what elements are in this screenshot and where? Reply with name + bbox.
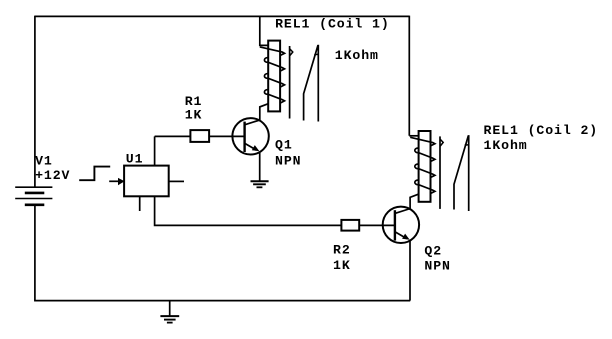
svg-text:V1: V1 bbox=[35, 154, 53, 169]
relay contact 2a armature bbox=[440, 136, 443, 209]
wire coil1 exit to Q1 collector bbox=[260, 104, 269, 121]
U1 right pin stub bbox=[169, 180, 184, 182]
U1 bottom pin stub bbox=[139, 196, 141, 211]
svg-text:NPN: NPN bbox=[275, 153, 301, 168]
svg-text:Q2: Q2 bbox=[424, 243, 442, 258]
ground (Q1 emitter) bbox=[251, 181, 269, 187]
coil1 winding turn 3 bbox=[264, 74, 284, 88]
coil1 winding turn 2 bbox=[264, 58, 284, 72]
relay contact 2b blade bbox=[454, 135, 469, 211]
relay coil REL1 (Coil 2) body bbox=[419, 131, 431, 202]
relay coil REL1 (Coil 1) body bbox=[268, 41, 280, 112]
wire top rail bbox=[35, 15, 409, 17]
svg-text:Q1: Q1 bbox=[275, 137, 293, 152]
wire coil1 feed from top rail bbox=[260, 16, 268, 45]
svg-text:R2: R2 bbox=[333, 242, 351, 257]
wire R1 to Q1 base bbox=[209, 135, 245, 137]
wire U1 lower pin down and across to R2 bbox=[155, 196, 342, 225]
wire U1 top pin up to R1 row bbox=[154, 136, 156, 165]
wire left rail upper (V1 plus lead) bbox=[34, 16, 36, 188]
svg-text:+12V: +12V bbox=[35, 168, 70, 183]
coil1 winding turn 1 bbox=[260, 47, 285, 56]
coil2 winding turn 1 bbox=[410, 137, 435, 146]
wire right rail bbox=[408, 16, 410, 136]
svg-text:REL1 (Coil 1): REL1 (Coil 1) bbox=[275, 16, 390, 31]
svg-text:1Kohm: 1Kohm bbox=[335, 48, 379, 63]
battery V1 bbox=[15, 187, 52, 205]
relay contact 1b blade bbox=[304, 45, 319, 122]
svg-text:1Kohm: 1Kohm bbox=[484, 138, 528, 153]
coil2 winding turn 4 bbox=[415, 180, 435, 194]
ground (bottom, main rail) bbox=[160, 301, 179, 323]
wire coil2 exit to Q2 collector bbox=[410, 194, 419, 209]
transistor Q1 bbox=[232, 118, 268, 154]
svg-text:NPN: NPN bbox=[424, 258, 450, 273]
resistor R1 bbox=[190, 130, 209, 142]
svg-text:REL1 (Coil 2): REL1 (Coil 2) bbox=[484, 123, 599, 138]
wire coil2 feed from right rail bbox=[409, 135, 418, 137]
svg-text:1K: 1K bbox=[333, 258, 351, 273]
relay contact 1a armature bbox=[290, 46, 293, 119]
IC U1 bbox=[124, 166, 169, 197]
resistor R2 bbox=[341, 220, 359, 231]
wire Q2 emitter to bottom rail bbox=[409, 241, 411, 301]
wire R2 to Q2 base bbox=[359, 224, 395, 226]
input arrow into U1 bbox=[109, 178, 124, 185]
wire bottom rail bbox=[34, 300, 410, 302]
step waveform annotation bbox=[79, 167, 110, 181]
wire left rail lower (V1 minus lead) bbox=[34, 205, 36, 301]
svg-text:1K: 1K bbox=[185, 108, 203, 123]
coil1 winding turn 4 bbox=[264, 90, 284, 104]
coil2 winding turn 2 bbox=[415, 148, 435, 162]
wire Q1 emitter to ground bbox=[259, 152, 261, 181]
transistor Q2 bbox=[383, 207, 419, 243]
svg-text:U1: U1 bbox=[126, 152, 144, 167]
coil2 winding turn 3 bbox=[415, 164, 435, 178]
wire U1 top node to R1 bbox=[155, 135, 191, 137]
